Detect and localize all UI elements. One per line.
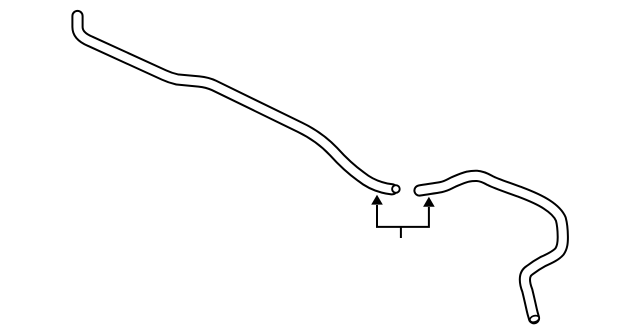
bracket center tick [400, 227, 402, 238]
arrowhead right [423, 197, 435, 207]
hose segment 2 bottom open-end ellipse [529, 314, 540, 323]
arrowhead left [371, 195, 383, 205]
callout bracket [377, 205, 429, 227]
hose segment 1 (left tube) outline [78, 16, 393, 189]
hose segment 2 (right tube) outline [420, 176, 563, 318]
hose segment 1 open-end circle [392, 185, 400, 193]
